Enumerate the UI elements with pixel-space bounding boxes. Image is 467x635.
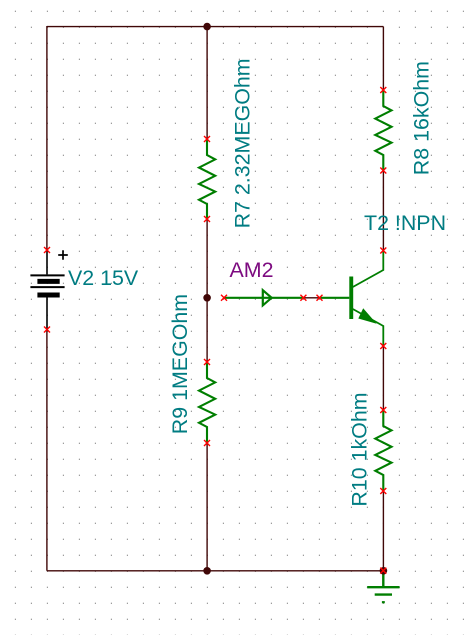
wire left rail lower: [46, 330, 48, 571]
resistor R10: [375, 410, 391, 491]
wire node to R9: [206, 298, 208, 362]
ammeter AM2 arrow: [263, 290, 272, 305]
transistor T2 collector lead: [353, 252, 384, 288]
pin x R7 top: [204, 136, 210, 142]
ammeter AM2 wire: [224, 297, 303, 299]
transistor T2 base lead: [320, 297, 350, 299]
pin x battery top: [44, 247, 50, 253]
battery V2 plate 2: [37, 279, 59, 284]
wire top rail: [47, 26, 384, 28]
pin x T2 base: [317, 295, 323, 301]
resistor R9: [199, 362, 215, 443]
pin x T2 emitter: [380, 343, 386, 349]
transistor T2 emitter arrow: [359, 309, 375, 323]
pin x R9 bottom: [204, 440, 210, 446]
wire bottom rail: [47, 570, 384, 572]
wire R9 to bottom rail: [206, 443, 208, 571]
battery V2 bottom lead: [46, 298, 48, 330]
svg-text:AM2: AM2: [230, 258, 274, 282]
junction node ground: [380, 567, 388, 575]
wire R8 to collector: [382, 171, 384, 251]
pin x R8 top: [380, 87, 386, 93]
wire right top: [382, 27, 384, 90]
pin x T2 collector: [380, 248, 386, 254]
junction node top middle: [203, 23, 211, 31]
pin x R8 bottom: [380, 168, 386, 174]
pin x ground: [380, 568, 386, 574]
wire middle top: [206, 27, 208, 139]
ground bar 3: [382, 601, 385, 603]
wire emitter to R10: [382, 346, 384, 410]
ground bar 2: [375, 593, 392, 595]
svg-text:R7 2.32MEGOhm: R7 2.32MEGOhm: [231, 58, 255, 228]
svg-text:R10 1kOhm: R10 1kOhm: [348, 392, 372, 506]
wire R10 to ground node: [382, 491, 384, 571]
svg-text:T2 !NPN: T2 !NPN: [364, 211, 446, 235]
svg-text:R8 16kOhm: R8 16kOhm: [410, 61, 434, 175]
pin x AM2 left: [221, 295, 227, 301]
pin x R10 bottom: [380, 488, 386, 494]
battery V2 top lead: [46, 251, 48, 274]
wire AM2 to base: [303, 297, 319, 299]
svg-text:R9 1MEGOhm: R9 1MEGOhm: [168, 294, 192, 434]
pin x R9 top: [204, 359, 210, 365]
pin x AM2 right: [300, 295, 306, 301]
junction node base: [203, 294, 211, 302]
battery V2 plus sign: [58, 250, 68, 260]
junction node bottom middle: [203, 567, 211, 575]
pin marks (red x): [44, 87, 386, 574]
battery V2 plate 1: [30, 274, 64, 276]
svg-text:V2 15V: V2 15V: [68, 266, 139, 290]
resistor R8: [375, 90, 391, 171]
ground stub: [382, 571, 384, 587]
battery V2 plate 3: [30, 286, 64, 288]
transistor T2 base bar: [349, 277, 353, 320]
pin x R7 bottom: [204, 216, 210, 222]
ground bar 1: [367, 586, 399, 588]
battery V2 plate 4: [37, 293, 59, 298]
pin x battery bottom: [44, 327, 50, 333]
wire left rail upper: [46, 26, 48, 250]
wire R7 to node: [206, 219, 208, 298]
resistor R7: [199, 139, 215, 219]
pin x R10 top: [380, 407, 386, 413]
transistor T2 emitter lead: [353, 309, 384, 346]
